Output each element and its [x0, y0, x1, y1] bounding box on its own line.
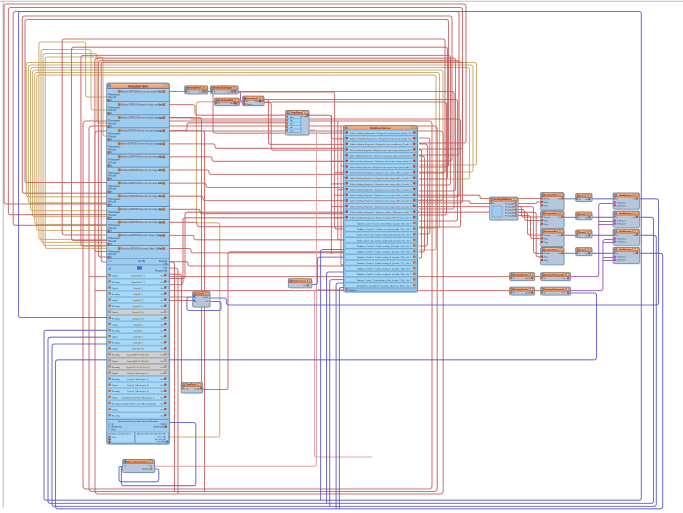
wire red ring to MB2a.in: [95, 290, 510, 292]
wire red A.out to B row (jog) 3: [169, 183, 343, 187]
wire purple stub UM3b: [603, 242, 613, 244]
wire blue AR.out loop to AR.in: [187, 297, 221, 311]
svg-text:Out: Out: [585, 234, 589, 237]
wire red A.out to B row (jog) 6: [169, 222, 343, 226]
wire red A.out to B row (jog) 8: [169, 249, 343, 253]
svg-text:Tables Holding Registers / Reg: Tables Holding Registers / Registers low…: [350, 138, 412, 141]
svg-text:AnalogToStepped(s)R: AnalogToStepped(s)R: [545, 288, 567, 291]
svg-text:Digital: Digital: [112, 336, 119, 339]
svg-text:Out: Out: [160, 409, 164, 412]
block MB2b "AnalogToStepped(s)": [541, 287, 572, 296]
svg-text:PosQty(B): PosQty(B): [505, 209, 515, 212]
svg-text:Out: Out: [158, 208, 162, 211]
svg-text:Digital(R FL): Digital(R FL): [132, 348, 145, 351]
wire blue INV3.out to UM3.in: [592, 234, 613, 236]
svg-text:Out: Out: [230, 102, 234, 105]
svg-text:Parameter: Parameter: [110, 237, 121, 240]
block B "ModbusServer" register table module: [344, 126, 419, 294]
svg-text:Out: Out: [160, 415, 164, 418]
wire tan loop 3 A.in to B.right: [31, 68, 470, 211]
svg-text:Parameter: Parameter: [110, 159, 121, 162]
wire red mid loop 2 A.in to B.right: [72, 47, 448, 240]
svg-text:Recall: Recall: [110, 254, 117, 256]
svg-text:UnNatural: UnNatural: [617, 241, 627, 244]
svg-text:Out ?: Out ?: [406, 262, 412, 265]
wire purple stub UM2a: [599, 221, 613, 223]
block T1 "AnalogInterlock": [185, 86, 209, 95]
svg-text:Out: Out: [585, 216, 589, 219]
svg-text:Out: Out: [558, 234, 562, 237]
svg-text:Modules Ethernet SlaveSim (B): Modules Ethernet SlaveSim (B): [137, 433, 166, 436]
svg-text:Out: Out: [160, 305, 164, 308]
wire red stub B row6: [341, 165, 344, 167]
svg-text:Tables Coils? Coils done (?): Tables Coils? Coils done (?): [357, 286, 405, 288]
wire red stub B row7: [335, 172, 344, 174]
wire red A.out to TP2.in: [169, 274, 181, 382]
svg-text:Recall: Recall: [110, 189, 117, 191]
svg-text:Out: Out: [158, 248, 162, 251]
svg-text:Out: Out: [558, 197, 562, 200]
wire red to T5 in3: [169, 123, 285, 131]
wire red stub B row15: [335, 217, 344, 219]
svg-text:Recall: Recall: [110, 163, 117, 165]
wire red B-right edge vertical b: [419, 156, 425, 252]
svg-text:Out: Out: [585, 198, 589, 201]
wire blue A.out loop to SM.in: [121, 423, 195, 486]
wire red stub B row11: [335, 194, 344, 196]
wire salmon SM.out to T5: [155, 130, 317, 466]
svg-text:Out: Out: [160, 342, 164, 345]
wire blue CM1.out to INV1.in: [564, 198, 576, 200]
block CM4 "CompareMerger": [541, 247, 566, 265]
svg-text:Out: Out: [160, 323, 164, 326]
svg-text:Out: Out: [158, 143, 162, 146]
wire red mid loop 3 A.in to B.right: [81, 55, 451, 246]
svg-text:Reading: Reading: [112, 282, 121, 284]
wire red T5.out2 to B.right bundle: [309, 119, 461, 227]
wire red A.out to B row (jog) 2: [169, 170, 343, 174]
svg-text:Tables Holding Registers / Reg: Tables Holding Registers / Registers min…: [350, 172, 412, 175]
svg-text:Out ?: Out ?: [406, 228, 412, 231]
wire red F.out2 to CM2: [518, 207, 541, 218]
svg-text:Tables Coils? Coils Auto (On): Tables Coils? Coils Auto (On) (code ?10): [357, 279, 405, 282]
wire tan loop 4 A.in to B.right: [33, 70, 443, 217]
wire red T4.out to B row2: [264, 100, 344, 145]
svg-text:Recall: Recall: [110, 241, 117, 243]
svg-text:Out: Out: [633, 234, 637, 237]
svg-text:Digital(6 ): Digital(6 ): [133, 342, 143, 345]
block UM3 "UnitMemory": [613, 229, 641, 246]
svg-text:Request (B): Request (B): [155, 269, 167, 272]
svg-text:Out: Out: [160, 287, 164, 290]
svg-text:ModbusServer: ModbusServer: [370, 126, 392, 130]
svg-text:Recall: Recall: [110, 110, 117, 112]
svg-text:Parameter: Parameter: [110, 146, 121, 149]
block INV4 "Inverter": [576, 248, 594, 257]
wire purple stub UM2b: [599, 224, 613, 226]
wire blue CM2.out to INV2.in: [564, 216, 576, 218]
wire purple stub UM4a: [603, 257, 613, 259]
wire purple T2.out to T4.in: [237, 92, 243, 101]
svg-text:Digital(EEP ROM) (FL): Digital(EEP ROM) (FL): [127, 360, 149, 363]
svg-text:Max: Max: [290, 124, 294, 126]
svg-text:Out: Out: [160, 275, 164, 278]
svg-text:Recall: Recall: [110, 215, 117, 217]
wire red A.out to B row (jog) 1: [169, 157, 343, 161]
svg-text:PosQty(B): PosQty(B): [505, 212, 515, 215]
svg-text:In: In: [617, 199, 619, 201]
svg-text:Max: Max: [290, 117, 294, 119]
svg-text:Parameter: Parameter: [110, 185, 121, 188]
wire red T1.out to B.right bundle: [208, 92, 454, 210]
block MB1a "MultiplyByValues": [510, 273, 536, 282]
svg-text:Out ?: Out ?: [406, 239, 412, 242]
svg-text:Digital(1 FL): Digital(1 FL): [132, 311, 144, 314]
svg-text:Tables Holding Registers / Reg: Tables Holding Registers / Registers max…: [350, 194, 412, 197]
wire red B.right to CM1 top: [418, 195, 541, 198]
svg-text:UnNatural: UnNatural: [617, 223, 627, 226]
wire purple MB1b.out up to UM1: [571, 204, 614, 277]
svg-text:Reading: Reading: [112, 306, 121, 308]
svg-text:Out: Out: [205, 300, 209, 303]
wire red top loop 1 A.in to B.right: [4, 4, 466, 204]
wire blue B.left down2: [327, 272, 344, 503]
wire red mid loop 5 A.in to B.right: [98, 60, 459, 257]
svg-text:Digital(3 ): Digital(3 ): [133, 323, 143, 326]
svg-text:Out: Out: [164, 266, 168, 269]
svg-text:Parameter: Parameter: [110, 120, 121, 123]
svg-text:Out ?: Out ?: [406, 268, 412, 271]
svg-text:Out(b): Out(b): [194, 387, 200, 390]
wire red ring middle: [89, 126, 437, 492]
wire red A.out to bottom ring b: [169, 268, 178, 494]
svg-text:Out: Out: [160, 378, 164, 381]
svg-text:AnalogToStepped(s)R: AnalogToStepped(s)R: [545, 274, 567, 277]
svg-text:Out(B): Out(B): [202, 296, 208, 299]
svg-text:Recall: Recall: [110, 176, 117, 178]
svg-text:Parameter: Parameter: [110, 106, 121, 109]
svg-text:Tables Coils? Coils relay 5 (c: Tables Coils? Coils relay 5 (code ?8): [357, 268, 405, 271]
svg-text:Recall: Recall: [110, 228, 117, 230]
svg-text:Tables Holding Registers / Reg: Tables Holding Registers / Registers ins…: [350, 132, 412, 135]
svg-text:Out: Out: [149, 465, 153, 468]
svg-text:UnNatural: UnNatural: [617, 256, 627, 259]
svg-text:Digital(ECOP EOS) (FL): Digital(ECOP EOS) (FL): [126, 366, 150, 369]
svg-text:Digital(1 ): Digital(1 ): [133, 287, 143, 290]
svg-text:Out: Out: [160, 317, 164, 320]
block UM4 "UnitMemory": [613, 247, 641, 264]
wire red A.out1 to B row0: [169, 92, 343, 134]
svg-text:CountMsg: CountMsg: [156, 440, 166, 443]
svg-text:Tables Holding Registers / Reg: Tables Holding Registers / Registers min…: [350, 149, 412, 152]
svg-text:Digital: Digital: [112, 275, 119, 278]
svg-text:Digital: Digital: [112, 348, 119, 351]
canvas border top: [0, 0, 683, 2]
wire red TP2.out up to B: [203, 252, 344, 390]
wire red ring inner: [95, 131, 443, 494]
svg-text:Reading: Reading: [112, 343, 121, 345]
wire red T3.out to B.right bundle: [239, 102, 446, 215]
wire blue INV4.out to UM4.in: [592, 252, 613, 254]
svg-text:Parameter: Parameter: [110, 93, 121, 96]
block T4 "AccumulateParser": [243, 96, 266, 107]
svg-text:Tables Holding Registers / Reg: Tables Holding Registers / Registers max…: [350, 188, 412, 191]
svg-text:PosQty(B): PosQty(B): [505, 205, 515, 208]
svg-text:Out: Out: [303, 284, 307, 287]
wire red top loop 4 A.in to B.right: [22, 16, 452, 193]
svg-text:In: In: [513, 293, 515, 295]
wire purple stub UM4b: [603, 260, 613, 262]
svg-text:In: In: [579, 253, 581, 255]
svg-text:Tables Coils? Coils relay 4 (c: Tables Coils? Coils relay 4 (code ?7): [357, 262, 405, 265]
wire red F.out4 to CM3: [518, 213, 541, 236]
svg-text:In: In: [579, 217, 581, 219]
svg-text:Out: Out: [158, 104, 162, 107]
svg-text:Out ?: Out ?: [406, 234, 412, 237]
svg-text:Parser: Parser: [246, 103, 253, 106]
wire red T4.out2 to B row3: [264, 103, 344, 151]
svg-text:Parameter: Parameter: [110, 250, 121, 253]
svg-text:Out: Out: [158, 195, 162, 198]
block MB1b "AnalogToStepped(s)": [541, 273, 572, 282]
svg-text:Recall: Recall: [110, 149, 117, 151]
svg-text:Out: Out: [160, 390, 164, 393]
svg-text:Digital: Digital: [112, 360, 119, 363]
wire red A.out to B row (jog) 7: [169, 235, 343, 239]
wire red stub B row9: [331, 183, 343, 185]
svg-text:In: In: [544, 293, 546, 295]
svg-text:Out: Out: [160, 281, 164, 284]
svg-text:Out: Out: [633, 216, 637, 219]
svg-text:Out ?: Out ?: [406, 285, 412, 288]
svg-text:Digital(EEP ROM) (FL): Digital(EEP ROM) (FL): [127, 354, 149, 357]
svg-text:Digital: Digital: [112, 409, 119, 412]
svg-text:Digital( 1(Analogte) 4): Digital( 1(Analogte) 4): [127, 390, 149, 393]
svg-text:Tables Holding Registers / Reg: Tables Holding Registers / Registers min…: [350, 200, 412, 203]
svg-text:Out: Out: [160, 402, 164, 405]
wire red A.out to T5 in2: [169, 118, 285, 119]
svg-text:Out: Out: [160, 348, 164, 351]
svg-text:Reading: Reading: [112, 355, 121, 357]
svg-text:Tables Coils? Coils relay 2 (c: Tables Coils? Coils relay 2 (code ?5): [357, 251, 405, 254]
svg-text:Reading: Reading: [112, 367, 121, 369]
svg-text:In: In: [579, 235, 581, 237]
svg-text:Out: Out: [160, 360, 164, 363]
svg-text:Out ?: Out ?: [406, 245, 412, 248]
wire blue VU.out to B: [312, 257, 344, 284]
wire red mid loop 6 A.in to B.right: [101, 62, 462, 262]
canvas border left: [2, 1, 4, 507]
block CM1 "CompareMerger": [541, 193, 566, 212]
svg-text:Out: Out: [160, 354, 164, 357]
svg-text:Digital( 1(Analogte) 2): Digital( 1(Analogte) 2): [127, 378, 149, 381]
svg-text:Out ?: Out ?: [406, 251, 412, 254]
wire red stub B row5: [331, 160, 343, 162]
wire red A.out up to B row15: [169, 218, 343, 285]
svg-text:Out: Out: [633, 198, 637, 201]
wire red A.out to T5 in1: [169, 105, 285, 116]
block A "Actuator Sim" main module: [107, 83, 171, 445]
svg-text:Digital: Digital: [112, 311, 119, 314]
svg-text:Tables Coils? Coils require un: Tables Coils? Coils require understand p…: [357, 239, 405, 242]
wire red A.out to B row (jog) 5: [169, 209, 343, 213]
svg-text:Out: Out: [158, 235, 162, 238]
svg-text:(B): (B): [108, 269, 111, 271]
svg-text:Preset: Preset: [544, 197, 550, 200]
wire blue INV1.out to UM1.in: [592, 198, 613, 200]
svg-text:In: In: [544, 278, 546, 280]
svg-text:Modbus: Modbus: [349, 290, 358, 292]
svg-text:Digital(5 ): Digital(5 ): [133, 336, 143, 339]
wire red B.right to CM4: [418, 207, 541, 254]
svg-text:Out: Out: [158, 117, 162, 120]
wire red A.out to B row (jog) 0: [169, 144, 343, 148]
svg-text:UnNatural: UnNatural: [617, 220, 627, 223]
wire red A.out up to B row14: [169, 212, 343, 278]
wire red A.out to AR row2: [169, 300, 192, 302]
svg-text:Tables Holding Registers / Reg: Tables Holding Registers / Registers del…: [350, 211, 412, 214]
wire red B-right edge vertical a: [419, 150, 422, 258]
wire red A.out to bottom ring a: [169, 262, 174, 492]
svg-text:Digital: Digital: [112, 299, 119, 302]
block INV3 "Inverter": [576, 230, 594, 239]
svg-text:Modules (starting Time): Modules (starting Time): [109, 433, 131, 436]
svg-text:Recall: Recall: [110, 123, 117, 125]
wire red T4.out to B.right bundle: [264, 100, 458, 222]
svg-text:Out: Out: [160, 336, 164, 339]
wire tan loop 1 A.in to B.right: [26, 63, 476, 197]
svg-text:In: In: [617, 235, 619, 237]
svg-text:Mix: Mix: [290, 127, 293, 129]
wire red top loop 3 A.in to B.right: [13, 12, 459, 226]
svg-text:Reading: Reading: [112, 416, 121, 418]
wire salmon B.modbus down: [315, 290, 373, 458]
svg-text:PosQty(B): PosQty(B): [505, 202, 515, 205]
svg-text:Out: Out: [158, 130, 162, 133]
svg-text:Cyc(B): Cyc(B): [525, 293, 531, 295]
wire blue UM3.out loop to A: [52, 235, 656, 506]
svg-text:Tables Holding Registers / Reg: Tables Holding Registers / Registers (pr…: [350, 143, 412, 146]
wire tan loop 7 A.in wrap to A.in: [39, 42, 107, 239]
svg-text:Movement: Movement: [111, 426, 122, 429]
wire blue B.left down3: [330, 280, 344, 507]
block T2 "AnalogToStepped": [210, 86, 239, 95]
svg-text:Out: Out: [160, 329, 164, 332]
svg-text:Out: Out: [160, 299, 164, 302]
wire red B.right to F.in: [418, 201, 490, 204]
wire red mid loop 4 A.in to B.right: [95, 58, 456, 251]
svg-text:In: In: [513, 278, 515, 280]
wire blue UM2.out loop to A: [48, 217, 654, 503]
svg-text:Reading: Reading: [112, 379, 121, 381]
svg-text:Tables Holding Registers / Reg: Tables Holding Registers / Registers min…: [350, 177, 412, 180]
wire red ring to MB1a.in: [89, 276, 510, 278]
svg-text:Tables Coils? Coils relay (Cod: Tables Coils? Coils relay (Code ?4): [357, 245, 405, 248]
wire red mid loop 1 A.in to B.right: [62, 39, 445, 235]
svg-text:Out: Out: [158, 156, 162, 159]
wire blue CM3.out to INV3.in: [564, 234, 576, 236]
svg-text:Out ?: Out ?: [406, 256, 412, 259]
svg-text:Out ?: Out ?: [406, 222, 412, 225]
block VU "VoltsUnderread": [288, 279, 313, 289]
wire red top loop 5 A.in to B.right: [25, 20, 449, 183]
svg-text:Out: Out: [255, 100, 259, 103]
svg-text:Pool: Pool: [111, 430, 116, 432]
wire blue CM4.out to INV4.in: [564, 252, 576, 254]
wire red A.out down mid to TP2: [169, 118, 201, 383]
svg-text:Reading: Reading: [112, 391, 121, 393]
svg-text:Digital(ECC(EOS)) F(Analogte): Digital(ECC(EOS)) F(Analogte) 1): [122, 396, 155, 399]
wire red ring outer: [83, 121, 432, 489]
svg-text:Tables Holding Registers / Reg: Tables Holding Registers / Registers max…: [350, 166, 412, 169]
svg-text:Digital(ECC(EOS_2) F(Analogte): Digital(ECC(EOS_2) F(Analogte)(B)): [120, 402, 156, 405]
wire tan loop 2 A.in to B.right: [28, 65, 473, 203]
wire red B-left vertical c: [338, 121, 344, 240]
svg-text:Mix: Mix: [290, 120, 293, 122]
svg-text:Tables Holding Registers / Reg: Tables Holding Registers / Registers max…: [350, 205, 412, 208]
svg-text:Out: Out: [160, 311, 164, 314]
svg-text:Digital( 1(Analogte) 1): Digital( 1(Analogte) 1): [127, 372, 149, 375]
svg-text:Digital: Digital: [112, 384, 119, 387]
svg-text:Out: Out: [558, 252, 562, 255]
svg-text:Out ?: Out ?: [406, 279, 412, 282]
svg-text:Digital(4 ): Digital(4 ): [133, 329, 143, 332]
wire blue B.left down1: [321, 250, 344, 501]
svg-text:Out ?: Out ?: [406, 273, 412, 276]
svg-text:Parameter: Parameter: [110, 224, 121, 227]
svg-text:UnNatural: UnNatural: [617, 259, 627, 262]
block T3 "CommandSteps": [214, 98, 240, 107]
svg-text:Out: Out: [633, 252, 637, 255]
svg-text:Digital(2 FL): Digital(2 FL): [132, 317, 144, 320]
svg-text:Tables Coils? Coils relay 3 (c: Tables Coils? Coils relay 3 (code ?6): [357, 256, 405, 259]
svg-text:Tables Holding Registers / Reg: Tables Holding Registers / Registers max…: [350, 155, 412, 158]
svg-text:Out: Out: [562, 292, 566, 295]
svg-text:AnalogFillMemory: AnalogFillMemory: [494, 198, 515, 201]
wire tan T3.in down to A.ComMsg: [169, 102, 220, 437]
svg-text:Max: Max: [290, 130, 294, 132]
svg-text:Parameter: Parameter: [110, 172, 121, 175]
wire red T2.out to B-left vertical: [238, 92, 344, 229]
svg-text:Cyc(B): Cyc(B): [525, 278, 531, 280]
block UM2 "UnitMemory": [613, 211, 641, 228]
wire red top loop 2 A.in to B.right: [8, 8, 462, 215]
wire red A.out to B row (jog) 9: [169, 262, 343, 266]
wire blue INV2.out to UM2.in: [592, 216, 613, 218]
svg-text:UnitMemory ?: UnitMemory ?: [619, 212, 634, 215]
wire tan loop 9 A.in wrap to A.in: [43, 54, 107, 246]
svg-text:Digital: Digital: [112, 287, 119, 290]
svg-text:TrueParser: TrueParser: [291, 111, 304, 114]
wire red B-right edge vertical d: [419, 138, 430, 234]
wire purple MB2b.out up to UM3: [571, 240, 614, 291]
svg-text:Out: Out: [158, 182, 162, 185]
svg-text:UnitMemory ?: UnitMemory ?: [619, 248, 634, 251]
svg-text:Digital(V2 ): Digital(V2 ): [133, 305, 144, 308]
svg-text:Actuator Sim: Actuator Sim: [128, 85, 148, 89]
block UM1 "UnitMemory": [613, 193, 641, 210]
block MB2a "MultiplyByValues": [510, 287, 536, 296]
wire red MB1a.out to MB1b.in: [535, 276, 541, 278]
svg-text:Tables Holding Registers / Reg: Tables Holding Registers / Registers min…: [350, 160, 412, 163]
svg-text:Preset: Preset: [544, 216, 550, 219]
wire red B.right to CM4b: [418, 212, 541, 257]
svg-text:Tables Coils? Coils recall (co: Tables Coils? Coils recall (code ?1): [357, 228, 405, 231]
wire red MB2a.out to MB2b.in: [535, 290, 541, 292]
wire red B-left vertical d: [341, 126, 344, 265]
wire red F.out1 to CM1: [518, 202, 541, 204]
svg-text:Modbus: Modbus: [142, 469, 149, 471]
